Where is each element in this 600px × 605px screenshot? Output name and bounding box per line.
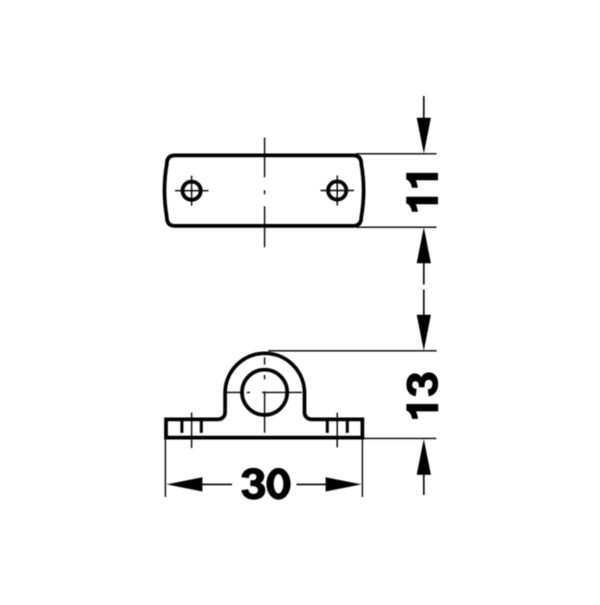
hole H1 (left, top view) <box>183 182 201 200</box>
extension line right (dim 30) <box>361 439 363 497</box>
dim 30 right arrow (points right) <box>326 477 362 491</box>
dim text 11 <box>407 173 438 211</box>
hole H1 crosshair <box>175 176 208 206</box>
extension line bottom (dim 11) <box>356 226 437 228</box>
front view outline (base with dome) <box>166 353 362 437</box>
dim 13 upper arrow (points down) <box>423 290 425 317</box>
bore horizontal centerline (dash-dot) <box>227 391 302 393</box>
hole H2 (right, top view) <box>328 181 346 199</box>
dim 30 dimension line right segment <box>297 483 328 485</box>
dim 30 left arrow (points left) <box>167 477 203 491</box>
top view vertical centerline (dash-dot) <box>264 138 266 248</box>
extension line top (dim 11) <box>356 153 437 155</box>
right hole walls (front view) <box>327 418 347 433</box>
left hole walls (front view) <box>182 418 201 433</box>
dim 11 upper arrow (points down) <box>423 96 425 119</box>
extension line left (dim 30) <box>164 439 166 497</box>
dim text 30 <box>242 468 290 499</box>
dim 13 lower arrow (points up) <box>417 439 431 475</box>
front view bore circle <box>242 370 287 415</box>
hole H2 crosshair <box>321 176 354 206</box>
dim 30 dimension line left segment <box>201 483 232 485</box>
left hole centerline (front view) <box>191 413 193 449</box>
right hole centerline (front view) <box>336 413 338 448</box>
extension line bottom (dim 13) <box>364 437 436 439</box>
dim 11 lower arrow (points up) <box>417 227 431 263</box>
extension line top (dim 13, from dome apex) <box>268 350 436 352</box>
dim text 13 <box>407 373 438 419</box>
top view outline (rounded plate) <box>165 155 364 226</box>
bore vertical centerline (dash-dot) <box>264 357 266 432</box>
